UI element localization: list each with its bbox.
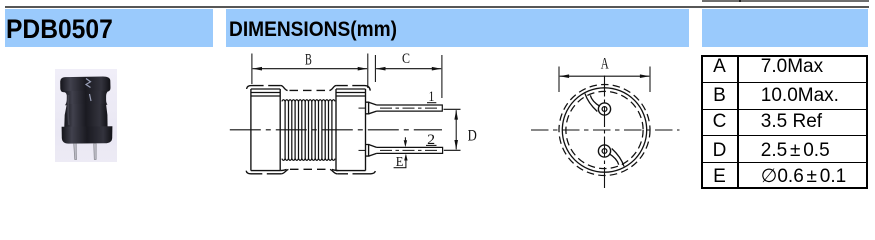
side view: left flange top band lines [251,93,280,97]
pin 2 label underline [426,144,437,146]
horizontal separator rule [5,6,870,8]
side view centerline (body axis) [230,129,442,131]
bottom edge of previous table (top right) [702,0,869,2]
right spacer banner [702,9,868,47]
part number banner [5,9,213,47]
side view: bottom silhouette cap under right flange with right hook [337,171,375,174]
svg-text:A: A [601,56,609,73]
svg-text:E: E [396,154,404,169]
dimension C extension lines [375,55,442,98]
top view: solid outline circle (flange OD) [562,88,646,172]
side view: pin 1 stub inside flange [359,107,366,109]
side view: top step-up S-curve right [329,86,336,91]
side view: top silhouette cap over left flange with end hooks [247,86,281,89]
side view: pin 2 stub inside flange [359,149,366,151]
inductor photo: neck [63,91,109,106]
inductor photo: winding body [64,104,107,130]
top view: pin pad 2 outer circle [598,145,610,157]
top view: pin pad 1 inner circle [602,107,607,112]
table column divider [737,57,738,187]
E label underline [394,167,407,169]
top view: lower lead wire hook [612,149,624,167]
dimension D extension line from pin 1 [444,108,461,110]
side view: top hidden dashed line across winding [290,89,329,91]
svg-text:1: 1 [429,89,435,105]
side view: bottom flange-edge step-up curve left [280,169,286,170]
product photo [55,69,117,162]
dimension E lower arrow and leader [405,156,407,168]
side view: right flange top band lines [336,93,366,97]
side view: pin 1 lead cone [369,102,377,114]
svg-text:2: 2 [427,132,435,148]
table cells [703,54,736,80]
svg-text:B: B [305,51,312,68]
side view: pin 1 lead axis dash-dot [380,107,438,109]
svg-text:C: C [402,51,410,67]
side view: bottom flange-edge step-down curve right [332,169,338,170]
svg-text:D: D [468,128,477,145]
inductor photo: sheen [67,95,70,125]
inductor photo: marking squiggle [86,79,91,102]
previous table column tick [739,0,741,2]
side view: winding top scalloped edge [282,100,335,102]
dimension C arrow line [376,68,441,70]
inductor photo: leg 2 [94,144,97,160]
dimensions banner [226,9,689,47]
top view: vertical centerline [604,76,606,191]
dimension B extension lines [252,54,368,89]
dimension A extension lines [559,67,650,93]
top view: outer hidden circle (flange chamfer OD, dashed) [559,85,650,176]
side view: pin 1 lead base rectangle [366,102,369,114]
side view: bottom hidden dashed line across winding [290,168,329,170]
side view: top step-down S-curve left [281,86,288,91]
top view: upper lead wire hook [585,94,597,112]
side view: left flange body [251,89,280,171]
dimension D arrow line [455,110,457,149]
side view: pin 2 lead cone [369,145,377,157]
inductor photo: top flange [60,77,110,93]
side view: bottom cap step-down S-curve right [330,169,337,173]
side view: pin 2 lead axis dash-dot [380,149,438,151]
top view: pin pad 1 outer circle [598,103,610,115]
top view: horizontal centerline [531,129,680,131]
side view: bottom cap step-up S-curve left [281,169,288,173]
top view: inner hidden circle (winding OD, dashed) [566,91,643,168]
table row dividers [703,82,866,83]
side view: pin 1 lead shaft [377,105,443,111]
pin 1 label underline [427,102,436,104]
side view: bottom silhouette cap under left flange with left hook [246,171,281,174]
dimension A arrow line [560,75,650,77]
inductor photo: leg 1 [74,144,77,160]
inductor photo: bottom flange [62,126,113,143]
side view: pin 2 lead shaft [377,147,443,153]
side view: right flange body [336,89,366,171]
dimension B arrow line [253,68,368,70]
dimension D extension line from pin 2 [444,149,461,151]
dimension table [701,55,868,189]
side view: winding bottom scalloped edge [282,159,335,161]
dimension E upper arrow [404,137,406,144]
side view: pin 2 lead base rectangle [366,145,369,157]
side view: top silhouette cap over right flange with right hook [336,86,370,91]
top view: pin pad 2 inner circle [602,149,607,154]
side view: winding hatch lines [284,101,286,159]
